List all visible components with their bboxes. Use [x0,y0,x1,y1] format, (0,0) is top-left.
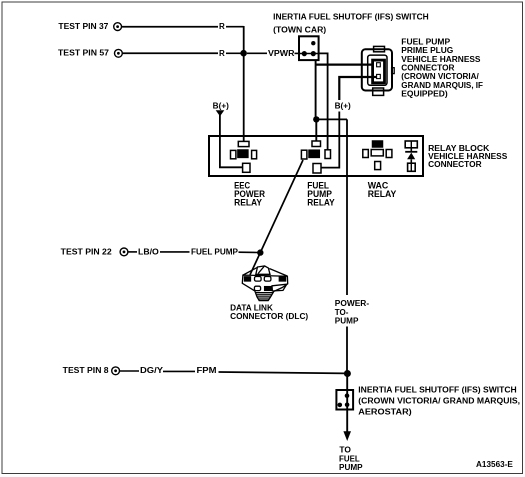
to fuel pump label [339,445,363,472]
wire prime plug pin 2 to B(+) [339,77,377,100]
svg-text:INERTIA FUEL SHUTOFF (IFS) SWI: INERTIA FUEL SHUTOFF (IFS) SWITCH [358,385,517,394]
wire test pin 22 to LB/O [128,251,137,253]
clamping diode in relay block [405,141,417,171]
svg-text:TEST PIN 22: TEST PIN 22 [61,247,113,256]
wire from test pin 57 to R label [123,52,218,54]
svg-text:TO: TO [339,445,351,454]
data link connector (DLC) symbol [242,266,287,301]
wire test pin 8 to DG/Y [120,370,139,372]
svg-text:RELAY: RELAY [307,198,334,208]
svg-text:POWER-: POWER- [335,299,370,308]
svg-text:TEST PIN 37: TEST PIN 37 [58,22,109,31]
EEC power relay label [234,180,265,207]
wire junction to VPWR label [247,52,267,54]
svg-text:FPM: FPM [197,366,217,375]
wire FPM to junction [219,372,346,373]
junction dot (pins 37/57/VPWR) [240,50,247,57]
wire LB/O to FUEL PUMP label [160,251,190,253]
wire switch exit right then down to fuel pump relay coil [319,53,328,149]
wire power-to-pump upper segment [346,119,348,295]
EEC power relay [231,141,257,172]
wire from switch bottom down to junction [315,60,317,119]
test pin 37 terminal symbol [114,23,122,31]
wire branch to prime plug pin 1 [316,63,377,65]
IFS town car switch terminal dot right [311,51,316,56]
diagonal wire continues to DLC connector [250,253,260,275]
svg-text:EQUIPPED): EQUIPPED) [401,90,448,99]
svg-text:VEHICLE HARNESS: VEHICLE HARNESS [401,55,481,64]
relay block outline [209,136,423,176]
DLC label [230,304,308,322]
svg-text:B(+): B(+) [335,102,352,111]
wire R to junction [226,52,241,54]
svg-text:DG/Y: DG/Y [140,366,164,375]
test pin 8 terminal symbol [112,367,120,375]
wire B(+) down into relay block to EEC relay contact [220,115,243,167]
IFS town car switch contact dot upper [311,41,315,45]
svg-text:CONNECTOR: CONNECTOR [428,160,482,169]
IFS switch (town car) box [299,36,319,60]
arrowhead to fuel pump [343,431,351,441]
vertical wire bus from pin37 corner through junction down to EEC relay top pin [243,26,245,142]
svg-text:RELAY: RELAY [368,189,397,199]
WAC relay [363,141,392,170]
test pin 57 terminal symbol [115,49,123,57]
svg-text:AEROSTAR): AEROSTAR) [358,408,412,417]
svg-text:PUMP: PUMP [335,316,359,325]
wire FUEL PUMP label to junction [239,251,259,253]
svg-text:INERTIA FUEL SHUTOFF (IFS) SWI: INERTIA FUEL SHUTOFF (IFS) SWITCH [273,13,429,22]
svg-text:TEST PIN 8: TEST PIN 8 [63,366,109,375]
B(+) source arrow [216,110,225,116]
node junction dot above fuel pump relay [313,116,319,122]
svg-text:R: R [219,22,225,31]
junction dot FPM / power-to-pump [344,370,351,377]
wire VPWR through switch [299,53,319,55]
fuel pump relay label [307,180,334,207]
test pin 22 terminal symbol [120,248,128,256]
fuel pump relay [301,141,330,173]
svg-text:LB/O: LB/O [138,247,159,256]
wire junction down to fuel pump relay top pin [315,119,317,141]
wire DG/Y to FPM [163,370,195,372]
IFS crown victoria contact dot bottom-left [338,403,343,408]
IFS crown victoria contact dot top [345,393,350,398]
svg-text:FUEL PUMP: FUEL PUMP [191,247,239,256]
wire from test pin 37 to R label [122,26,218,28]
diagonal wire from fuel pump relay coil to DLC junction [260,160,303,253]
IFS crown victoria contact dot bottom-center [345,402,350,407]
svg-text:(TOWN CAR): (TOWN CAR) [273,26,326,35]
IFS switch (crown victoria) box [336,390,353,410]
svg-text:RELAY: RELAY [234,198,262,208]
fuel pump prime plug text block [401,38,483,99]
fuel pump prime plug connector [362,46,394,95]
svg-text:TEST PIN 57: TEST PIN 57 [58,49,110,58]
wire B(+) down to fuel pump relay contact [321,112,339,168]
svg-text:R: R [219,49,225,58]
svg-text:VPWR: VPWR [268,49,295,58]
wire junction down through IFS switch [346,374,348,434]
wire power-to-pump lower segment [346,327,348,374]
svg-text:PUMP: PUMP [339,463,363,472]
svg-text:(CROWN VICTORIA/ GRAND MARQUIS: (CROWN VICTORIA/ GRAND MARQUIS, [358,396,520,405]
svg-text:B(+): B(+) [213,101,230,110]
svg-text:A13563-E: A13563-E [476,460,514,469]
svg-text:PRIME PLUG: PRIME PLUG [401,46,453,55]
junction dot on DLC branch [257,249,263,255]
IFS crown victoria label [358,385,520,416]
IFS town car switch terminal dot left [302,51,307,56]
wire VPWR label to IFS town car switch [295,52,301,54]
svg-text:(CROWN VICTORIA/: (CROWN VICTORIA/ [401,72,479,81]
wire R to corner [226,26,244,28]
WAC relay label [368,180,397,199]
relay block connector label [428,144,508,169]
svg-text:CONNECTOR (DLC): CONNECTOR (DLC) [230,312,308,321]
net label POWER-TO-PUMP [335,299,370,325]
wire junction to power-to-pump line [316,118,347,120]
